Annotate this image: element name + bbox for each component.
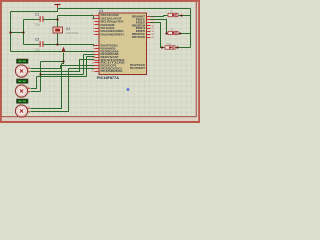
junction power-cap branch left [9, 31, 11, 33]
capacitor C1 [35, 13, 44, 27]
wire MCLR power run [11, 51, 96, 53]
capacitor C2 [35, 38, 44, 52]
sheet margin tint bottom [2, 118, 197, 121]
wire C2 left lead [24, 44, 40, 46]
chip left pin numbers [92, 15, 95, 73]
wire motor1 upper [31, 66, 95, 69]
chip left pin stubs upper [95, 16, 100, 35]
wire motor3 lower [31, 69, 95, 112]
wire cap column vertical [23, 20, 25, 45]
power terminal top [55, 5, 61, 9]
wire RB0 to row1 [151, 16, 168, 17]
wire motor1 lower [31, 60, 95, 72]
wire power jog left [11, 9, 58, 12]
wire C1 left lead [24, 19, 40, 21]
wire crystal bottom [57, 34, 59, 45]
svg-text:U1: U1 [99, 9, 103, 13]
junction LED row2 right node [179, 32, 181, 34]
junction cap column [22, 31, 24, 33]
wire motor2 lower drop [31, 75, 41, 92]
wire crystal top [57, 16, 59, 28]
junction power tap node [62, 60, 64, 62]
motor M2 label display [17, 79, 29, 83]
wire power horizontal [41, 61, 64, 63]
chip right pin numbers [152, 17, 155, 39]
svg-text:C2: C2 [35, 38, 39, 42]
svg-text:RC7/RX/DT: RC7/RX/DT [130, 67, 146, 70]
wire row3 to rail [176, 47, 191, 49]
motor M3 body [15, 105, 27, 117]
chip U1 PIC16F877A body [99, 13, 147, 75]
LED D2 body [168, 31, 178, 34]
junction crystal top node [56, 18, 58, 20]
wire left vertical [10, 12, 12, 52]
wire power arrow stem [63, 53, 65, 62]
junction power pair node [39, 73, 41, 75]
wire motor2 upper [31, 77, 37, 89]
crystal X1 [53, 27, 79, 35]
junction LED row3 right node [176, 46, 178, 48]
motor M1 body [15, 65, 27, 77]
LED D1 body [168, 13, 178, 16]
chip right pin stubs [147, 17, 151, 38]
motor M1 label display [17, 59, 29, 63]
motor M2 hub [20, 89, 23, 92]
wire RB1 to row2 [151, 20, 169, 34]
svg-text:D1: D1 [170, 9, 174, 13]
wire power tap3 [62, 62, 64, 64]
wire row2 to rail [179, 33, 191, 35]
sheet margin tint right [197, 2, 199, 117]
power terminal arrow mid [62, 47, 66, 52]
wire OSC1 run [58, 16, 96, 19]
wire riser to pin54 [84, 55, 95, 75]
svg-text:D2: D2 [170, 27, 174, 31]
svg-text:C1: C1 [35, 13, 39, 17]
wire pair upper [41, 74, 84, 76]
wire motor3 upper [31, 64, 62, 109]
junction LED row3 left node [161, 46, 163, 48]
junction crystal bottom node [56, 43, 58, 45]
motor M1 pin stubs [27, 68, 30, 72]
motor M1 hub [20, 69, 23, 72]
sheet border [1, 1, 196, 117]
svg-text:D3: D3 [167, 42, 171, 46]
svg-text:RB7/PGD: RB7/PGD [132, 36, 145, 39]
svg-text:22p: 22p [35, 23, 40, 27]
wire C2 right lead [44, 45, 96, 46]
wire riser to pin56 [87, 57, 95, 77]
window frame [0, 0, 200, 123]
chip left pin stubs lower [95, 46, 100, 72]
motor M3 pin stubs [27, 108, 30, 112]
svg-text:RA3/AN3/VREF+: RA3/AN3/VREF+ [101, 33, 126, 36]
wire pair lower [37, 76, 87, 78]
svg-text:PIC16F877A: PIC16F877A [97, 76, 119, 80]
motor M2 pin stubs [27, 88, 30, 92]
svg-text:RC4/SDI/SDA: RC4/SDI/SDA [101, 70, 123, 73]
wire right rail vertical [190, 9, 192, 48]
svg-text:22p: 22p [35, 48, 40, 52]
junction LED row1 node [180, 14, 182, 16]
svg-text:CRYSTAL: CRYSTAL [66, 31, 79, 35]
motor M2 body [15, 85, 27, 97]
origin marker [127, 88, 130, 91]
motor M3 label display [17, 99, 29, 103]
wire power top rail [58, 8, 191, 10]
chip right pin names [130, 16, 146, 70]
wire RB2 to row3 [151, 23, 165, 48]
LED D3 body [165, 46, 175, 49]
wire C1 right lead [44, 19, 58, 21]
wire branch to cap column [11, 32, 24, 34]
chip left pin names [101, 14, 126, 73]
junction LED row2 left node [165, 32, 167, 34]
motor M3 hub [20, 109, 23, 112]
wire power drop [40, 62, 42, 75]
wire row1 to rail [179, 15, 191, 17]
